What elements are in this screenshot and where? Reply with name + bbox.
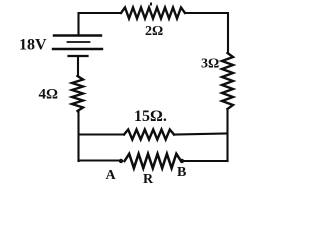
svg-text:R: R bbox=[143, 172, 154, 187]
wire battery to 4-ohm bbox=[77, 56, 79, 76]
resistor R3 4ohm bbox=[72, 76, 83, 111]
wire middle branch right bbox=[174, 134, 227, 135]
svg-text:3Ω: 3Ω bbox=[201, 57, 219, 72]
svg-text:B: B bbox=[177, 165, 186, 180]
wire right rail bbox=[226, 109, 228, 161]
wire bottom right bbox=[182, 160, 228, 162]
svg-text:A: A bbox=[106, 168, 117, 183]
resistor R5 (R) bbox=[125, 154, 182, 168]
svg-text:18V: 18V bbox=[19, 37, 47, 54]
resistor R2 3ohm bbox=[222, 53, 233, 109]
wire top right bbox=[185, 13, 228, 53]
wire middle branch left bbox=[79, 133, 124, 135]
svg-text:4Ω: 4Ω bbox=[39, 87, 59, 103]
scan speck above 2-ohm bbox=[150, 3, 152, 6]
wire left rail bbox=[77, 111, 79, 161]
wire bottom left bbox=[79, 159, 122, 161]
resistor R1 2ohm bbox=[121, 8, 185, 19]
node A bbox=[119, 159, 123, 163]
node B bbox=[180, 159, 184, 163]
svg-text:2Ω: 2Ω bbox=[145, 24, 163, 39]
svg-text:15Ω.: 15Ω. bbox=[134, 108, 167, 125]
battery B1 18V bbox=[53, 36, 102, 57]
wire top from battery to 2-ohm bbox=[79, 13, 122, 35]
resistor R4 15ohm bbox=[124, 130, 174, 140]
